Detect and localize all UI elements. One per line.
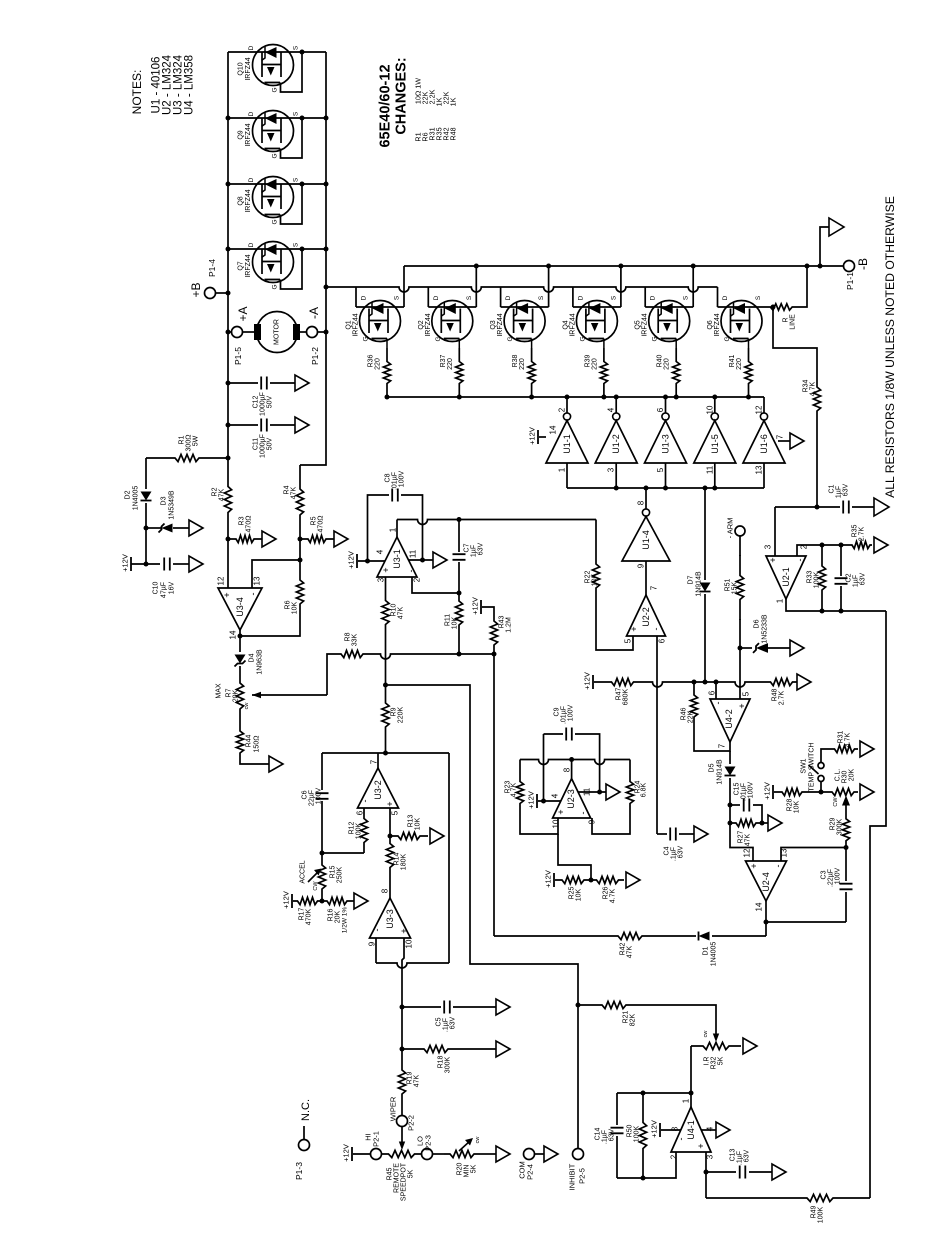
wire Q5 source up: [692, 266, 694, 307]
node Q7 source: [300, 247, 305, 252]
SW1 labels: [801, 743, 816, 792]
wire R10 to node: [385, 629, 387, 685]
svg-text:10K: 10K: [452, 616, 459, 629]
R51 label: [725, 578, 739, 594]
svg-text:C1: C1: [829, 484, 836, 493]
wire Q10 gate tie: [281, 52, 303, 92]
power +12V R43: [471, 597, 482, 615]
ground U1-6 pin7: [790, 433, 804, 449]
ground R16: [354, 893, 368, 909]
svg-text:C2: C2: [846, 573, 853, 582]
transistor Q9: [253, 111, 294, 152]
svg-text:2.7K: 2.7K: [859, 526, 866, 541]
P2-3 labels: [416, 1135, 433, 1151]
power +12V R28: [763, 782, 774, 800]
node R33 bottom: [820, 609, 825, 614]
node U2-3 out: [569, 757, 574, 762]
svg-text:G: G: [272, 153, 279, 158]
resistor R17 470K: [293, 897, 322, 904]
svg-text:4: 4: [607, 407, 616, 412]
svg-text:S: S: [293, 111, 300, 116]
svg-text:R42: R42: [620, 942, 627, 955]
notes text block: [130, 54, 196, 115]
wire R7 to R44: [239, 711, 241, 729]
wire source top bus: [404, 265, 844, 267]
svg-text:-: -: [406, 570, 416, 573]
wire R7 wiper: [252, 694, 327, 696]
R21 label: [623, 1010, 637, 1026]
R44 label: [246, 734, 261, 752]
svg-text:1/2W 1%: 1/2W 1%: [342, 907, 349, 934]
U1-6 pin labels: [755, 405, 764, 474]
svg-text:470Ω: 470Ω: [246, 516, 253, 533]
svg-text:R9: R9: [391, 707, 398, 716]
svg-text:S: S: [683, 295, 690, 300]
svg-text:10K: 10K: [576, 888, 583, 901]
svg-text:R43: R43: [499, 615, 506, 628]
svg-text:cw: cw: [244, 703, 250, 710]
svg-text:R28: R28: [787, 798, 794, 811]
node +A bus: [226, 330, 231, 335]
svg-text:- ARM: - ARM: [726, 518, 735, 539]
svg-text:G: G: [507, 336, 514, 341]
R3 label: [239, 516, 253, 533]
wire C11 lead: [228, 424, 258, 426]
wire U3-3 pin9 stub: [375, 938, 377, 963]
wire SW1 lever: [809, 765, 819, 774]
wire +B stub: [216, 292, 229, 294]
node R27: [728, 821, 733, 826]
node R29 C3 pin13: [844, 845, 849, 850]
svg-text:+A: +A: [236, 306, 250, 321]
ground C11: [295, 417, 309, 433]
resistor R4 47K: [296, 465, 303, 539]
wire C5 to ground: [453, 1006, 496, 1008]
diode D1 1N4005: [699, 932, 710, 941]
svg-text:1µF: 1µF: [853, 575, 860, 587]
svg-text:.01µF: .01µF: [392, 472, 399, 490]
changes list resistor values: [414, 78, 458, 107]
wire motor to P1-2: [300, 331, 307, 333]
wire C2 bottom lead: [840, 586, 842, 611]
R46 label: [681, 707, 695, 723]
node gate bus U1-5: [712, 395, 717, 400]
resistor R40 220: [673, 348, 680, 397]
svg-text:13: 13: [780, 848, 789, 857]
wire C1 to ground: [852, 506, 874, 508]
svg-text:1N5349B: 1N5349B: [169, 490, 176, 520]
svg-text:1000µF: 1000µF: [260, 392, 267, 416]
svg-text:G: G: [272, 87, 279, 92]
svg-text:2: 2: [558, 407, 567, 412]
svg-text:220: 220: [591, 358, 598, 370]
node R18: [400, 1047, 405, 1052]
svg-text:10K: 10K: [292, 601, 299, 614]
pot R30 C.L. 20K: [828, 788, 858, 795]
Q2 labels: [418, 295, 473, 341]
svg-text:1µF: 1µF: [471, 545, 478, 557]
wire U2-1 pin3 up: [774, 507, 776, 556]
resistor R26 4.7K: [591, 876, 624, 883]
resistor R14 180K: [386, 836, 393, 875]
wire +12V to HI: [353, 1153, 371, 1155]
svg-text:P1-4: P1-4: [207, 259, 217, 277]
svg-text:220: 220: [736, 358, 743, 370]
terminal P1-4 +B: [205, 288, 216, 299]
resistor R46 22K: [690, 682, 697, 730]
resistor R9 220K: [382, 685, 389, 745]
Q3 labels: [490, 295, 545, 341]
svg-text:47K: 47K: [219, 488, 226, 501]
wire R22 top lead: [595, 520, 597, 561]
node left bus Q9: [226, 116, 231, 121]
svg-text:.1µF: .1µF: [737, 1151, 744, 1165]
op-amp U2-4: [746, 861, 787, 901]
svg-text:R48: R48: [772, 688, 779, 701]
inverter U1-2: [595, 413, 637, 463]
svg-text:U4 - LM358: U4 - LM358: [184, 55, 196, 115]
pot R7 20K MAX: [236, 681, 243, 711]
svg-text:63V: 63V: [678, 845, 685, 858]
node R13 R14: [388, 834, 393, 839]
svg-text:+: +: [768, 557, 778, 562]
svg-text:R39: R39: [584, 354, 591, 367]
R36 label: [368, 354, 382, 369]
svg-text:R6: R6: [285, 600, 292, 609]
inverter U1-3: [645, 413, 687, 463]
wire R44 to ground: [240, 755, 269, 764]
R7 labels: [216, 683, 251, 709]
svg-text:S: S: [293, 45, 300, 50]
C12 value label: [253, 392, 274, 416]
svg-text:C5: C5: [436, 1017, 443, 1026]
wire -A right bus: [300, 52, 326, 465]
R27 label: [738, 830, 752, 846]
node input bus 616.25: [614, 486, 619, 491]
wire U4-1 box bottom: [617, 1152, 676, 1178]
wire C7 top lead: [458, 520, 460, 553]
Q8 labels: [238, 177, 300, 224]
transistor Q1: [360, 301, 401, 349]
svg-text:220: 220: [664, 358, 671, 370]
svg-text:-: -: [360, 800, 370, 803]
node C9 pin11: [597, 790, 602, 795]
C6 label: [302, 788, 323, 807]
node Q9 source: [300, 116, 305, 121]
resistor R23 4.7K: [516, 771, 523, 814]
svg-text:300Ω: 300Ω: [186, 435, 193, 452]
svg-text:+: +: [399, 928, 409, 933]
U2-4 pins: [743, 848, 789, 911]
transistor Q5: [649, 301, 690, 349]
svg-text:R47: R47: [616, 687, 623, 700]
wire U1-2 input: [615, 463, 617, 488]
C3 label: [821, 868, 842, 888]
wire pin10 to R25 node: [558, 834, 591, 880]
wire U3-2 pin5 down: [389, 808, 391, 836]
wire U1-1 input: [566, 463, 568, 488]
P2-5 labels: [568, 1163, 587, 1190]
svg-text:N.C.: N.C.: [300, 1099, 312, 1121]
node C9 pin4: [541, 799, 546, 804]
svg-text:U1-2: U1-2: [611, 434, 621, 454]
R47 label: [616, 687, 630, 705]
node C11 bus: [226, 423, 231, 428]
svg-text:R17: R17: [299, 907, 306, 920]
ground U3-1 pin11: [433, 552, 447, 568]
wire D2 to rail: [145, 503, 147, 564]
node U3-4 output: [238, 634, 243, 639]
node source bus Q3: [546, 264, 551, 269]
R28 label: [787, 798, 801, 813]
node U4-1 top: [689, 1091, 694, 1096]
svg-text:4.7K: 4.7K: [845, 732, 852, 747]
D1 label: [703, 942, 718, 967]
svg-text:R45: R45: [387, 1167, 394, 1180]
node gate bus U1-2: [614, 395, 619, 400]
svg-text:5W: 5W: [193, 435, 200, 446]
svg-text:R37: R37: [440, 354, 447, 367]
R16 label: [328, 907, 349, 934]
svg-text:TEMP SWITCH: TEMP SWITCH: [809, 743, 816, 792]
wire speed ref bus: [370, 654, 494, 659]
svg-text:10K: 10K: [415, 817, 422, 830]
resistor R10 47K: [382, 596, 389, 629]
R29 label: [830, 817, 844, 835]
node gate bus R36: [385, 395, 390, 400]
power +12V U1 pin14: [528, 427, 539, 445]
wire P1-2 to bus: [318, 331, 327, 333]
resistor R12 100K: [360, 808, 367, 853]
svg-text:+12V: +12V: [544, 870, 553, 888]
wire U1-1 output to gate bus: [566, 397, 568, 413]
svg-text:U2-4: U2-4: [761, 872, 771, 892]
svg-text:SW1: SW1: [801, 758, 808, 773]
svg-text:D: D: [248, 177, 255, 182]
svg-text:U3-2: U3-2: [373, 780, 383, 800]
node R12 C6: [320, 851, 325, 856]
capacitor C8 .01uF: [392, 489, 398, 502]
transistor Q6: [721, 301, 762, 349]
node C7 R11: [457, 591, 462, 596]
resistor R27 47K: [730, 819, 762, 826]
capacitor C6 22uF: [316, 793, 329, 799]
capacitor C5 .1uF: [444, 1001, 450, 1014]
svg-text:R7: R7: [226, 688, 233, 697]
svg-text:20K: 20K: [335, 910, 342, 923]
svg-text:G: G: [435, 336, 442, 341]
wire C3 bottom lead: [845, 892, 847, 922]
wire D4 to R7: [239, 666, 241, 681]
svg-text:220: 220: [375, 358, 382, 370]
wire P1-3 stub: [303, 1126, 305, 1140]
svg-text:IRFZ44: IRFZ44: [245, 57, 252, 80]
svg-text:+: +: [222, 592, 232, 597]
terminal P1-3: [299, 1140, 310, 1151]
U3-1 pins: [376, 527, 422, 582]
capacitor C15 .01uF: [744, 799, 750, 812]
svg-text:100V: 100V: [568, 705, 575, 722]
svg-text:IRFZ44: IRFZ44: [714, 313, 721, 336]
power +12V U3-1 pin4: [347, 551, 358, 569]
wire ARM to R51: [739, 536, 741, 556]
wire C9 top right: [575, 734, 600, 792]
node Q8 source: [300, 182, 305, 187]
svg-text:.01µF: .01µF: [561, 706, 568, 724]
wire C13 to ground: [749, 1171, 772, 1173]
R42 label: [620, 942, 634, 958]
IR wiper arrow head: [713, 1034, 719, 1043]
svg-text:5K: 5K: [718, 1056, 725, 1065]
wire C4 to ground: [679, 833, 694, 835]
C9 label: [554, 705, 575, 725]
resistor R42 47K: [610, 932, 650, 939]
D6 label: [754, 614, 769, 644]
svg-text:G: G: [363, 336, 370, 341]
R26 label: [603, 886, 617, 903]
svg-text:S: S: [394, 295, 401, 300]
ground R26: [626, 872, 640, 888]
svg-text:5: 5: [656, 467, 665, 472]
svg-text:1N5233B: 1N5233B: [762, 614, 769, 644]
wire R21 to IR pot: [650, 1005, 716, 1035]
svg-text:100K: 100K: [634, 1126, 641, 1143]
svg-text:-: -: [651, 628, 661, 631]
wire C13 lead: [706, 1171, 736, 1173]
ground D3: [189, 520, 203, 536]
svg-text:U3-1: U3-1: [392, 549, 402, 569]
Q4 labels: [562, 295, 617, 341]
svg-text:6.8K: 6.8K: [641, 782, 648, 797]
svg-text:+: +: [385, 801, 395, 806]
ground R20: [496, 1146, 510, 1162]
node input bus U1-4: [644, 486, 649, 491]
capacitor C11: [261, 419, 267, 432]
wire U4-2 pin6: [715, 682, 717, 699]
wire C8 left leg: [368, 495, 390, 561]
svg-text:G: G: [272, 284, 279, 289]
zener D6 1N5233B: [753, 643, 768, 653]
wire U3-1 pin2: [412, 577, 459, 593]
node R3: [226, 537, 231, 542]
wire drain bus: [326, 287, 718, 292]
svg-text:47µF: 47µF: [161, 582, 168, 598]
wire Q4 drain up: [572, 287, 574, 307]
node R9/R10: [383, 683, 388, 688]
wire R42 to R43 drop: [494, 935, 610, 937]
svg-text:47K: 47K: [291, 486, 298, 499]
U1-4 pin labels: [637, 500, 646, 568]
ground C5: [496, 999, 510, 1015]
svg-text:1.2M: 1.2M: [506, 617, 513, 633]
R5 label: [311, 516, 325, 533]
svg-text:D3: D3: [161, 496, 168, 505]
svg-text:INHIBIT: INHIBIT: [568, 1163, 577, 1190]
wire Q10 drain-source rung: [228, 51, 326, 53]
node gate bus R38: [529, 395, 534, 400]
wire C11 to ground: [270, 424, 295, 426]
node R11 bus: [457, 652, 462, 657]
resistor R49 100K: [770, 1194, 870, 1201]
wire out to C3: [766, 921, 846, 923]
U1-3 pin labels: [656, 407, 665, 472]
svg-text:D: D: [248, 242, 255, 247]
svg-text:+12V: +12V: [583, 672, 592, 690]
svg-text:U4-2: U4-2: [724, 709, 734, 729]
svg-text:7: 7: [776, 434, 785, 439]
svg-text:R27: R27: [738, 830, 745, 843]
svg-text:63V: 63V: [744, 1149, 751, 1162]
capacitor C12: [261, 377, 267, 390]
capacitor C1 1uF: [843, 501, 849, 514]
svg-text:470Ω: 470Ω: [318, 516, 325, 533]
wire R43 top: [482, 607, 494, 612]
wire U2-3 out stub: [571, 760, 573, 779]
+B label: [189, 259, 217, 298]
-B labels: [845, 258, 870, 290]
node right bus Q9: [324, 116, 329, 121]
motor terminal labels: [233, 306, 321, 364]
svg-text:R32: R32: [711, 1056, 718, 1069]
svg-text:U1-1: U1-1: [562, 434, 572, 454]
svg-text:U1-4: U1-4: [641, 530, 651, 550]
svg-text:D: D: [433, 295, 440, 300]
ground -B: [829, 218, 844, 236]
wire pin13 branch: [781, 848, 846, 862]
op-amp U3-1: [377, 537, 417, 577]
svg-text:R41: R41: [729, 354, 736, 367]
svg-text:D4: D4: [249, 653, 256, 662]
svg-text:P1-3: P1-3: [294, 1162, 304, 1180]
D2 label: [125, 486, 140, 511]
svg-text:U3-3: U3-3: [385, 909, 395, 929]
switch SW1 contact b: [818, 763, 824, 769]
wire pin13 jog: [252, 560, 300, 588]
R4 label: [284, 485, 298, 499]
node R1 bus: [226, 456, 231, 461]
svg-text:CHANGES:: CHANGES:: [394, 57, 410, 134]
svg-text:IRFZ44: IRFZ44: [245, 123, 252, 146]
wire C6 top lead: [321, 753, 323, 790]
wire R34 to C1 node: [816, 416, 818, 507]
resistor R18 300K: [402, 1045, 470, 1052]
svg-text:+: +: [737, 703, 747, 708]
diode D2 1N4005: [141, 492, 152, 501]
transistor Q7: [253, 242, 294, 283]
svg-text:C13: C13: [730, 1148, 737, 1161]
C2 label: [846, 572, 867, 587]
node R33 top: [820, 543, 825, 548]
svg-text:1000µF: 1000µF: [260, 434, 267, 458]
wire error bus: [651, 682, 766, 687]
wire R34 branch: [773, 307, 817, 382]
node -A bus: [324, 330, 329, 335]
svg-text:1: 1: [776, 598, 785, 603]
svg-text:470K: 470K: [306, 909, 313, 926]
svg-text:-: -: [372, 929, 382, 932]
wire D1 to R42: [650, 935, 696, 937]
resistor R38 220: [528, 348, 535, 397]
C8 label: [385, 471, 406, 491]
wire R16 to ground: [352, 900, 354, 902]
U1-1 pin14 label: [549, 425, 558, 434]
R9 label: [391, 707, 405, 724]
svg-text:R11: R11: [445, 614, 452, 626]
svg-text:C15: C15: [734, 782, 741, 795]
svg-text:13: 13: [755, 465, 764, 474]
svg-text:Q8: Q8: [238, 196, 245, 205]
power +12V R17: [282, 891, 293, 909]
